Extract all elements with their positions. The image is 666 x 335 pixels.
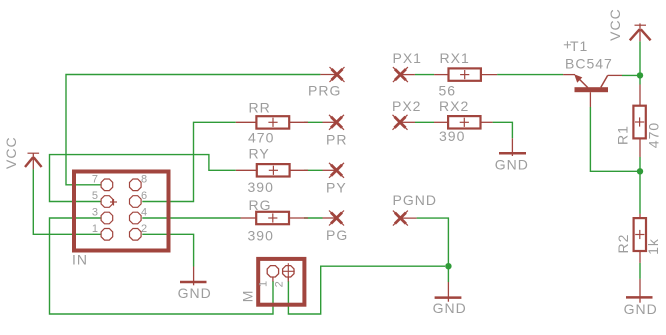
svg-text:PRG: PRG xyxy=(308,83,341,99)
svg-text:PGND: PGND xyxy=(393,192,437,208)
svg-text:390: 390 xyxy=(439,128,465,144)
pin PX2 xyxy=(393,115,416,130)
svg-text:390: 390 xyxy=(248,179,274,195)
svg-text:470: 470 xyxy=(248,130,274,146)
svg-text:8: 8 xyxy=(141,174,147,186)
ground GND symbol at PGND junction xyxy=(435,282,462,302)
wire net PRG: pad7 to PRG pin xyxy=(66,75,320,185)
wire net R1-R2 column xyxy=(639,75,641,279)
junction node at PGND/GND xyxy=(445,263,451,269)
svg-text:1: 1 xyxy=(258,281,270,287)
svg-text:RG: RG xyxy=(249,197,272,213)
junction node base/R1/R2 xyxy=(637,168,643,174)
pin PY xyxy=(323,163,345,178)
wire net PX1: PX1 pin to RX1 to transistor emitter xyxy=(415,74,563,76)
svg-text:2: 2 xyxy=(274,281,286,287)
wire net PX2: PX2 pin to RX2 to GND xyxy=(415,122,512,138)
pad 1 of M xyxy=(267,266,278,282)
svg-text:1k: 1k xyxy=(645,238,661,255)
pad 2 of M with origin cross xyxy=(282,263,294,281)
pad 2 of IN xyxy=(130,229,142,241)
power VCC right symbol xyxy=(630,23,651,41)
ground GND symbol below IN xyxy=(180,267,207,286)
svg-text:PX1: PX1 xyxy=(393,50,422,66)
svg-text:5: 5 xyxy=(92,190,98,202)
wire net GND left: pad2 to GND symbol xyxy=(142,234,193,266)
connector M body xyxy=(258,259,304,305)
svg-text:470: 470 xyxy=(646,122,662,148)
svg-text:4: 4 xyxy=(141,207,147,219)
wire net M1: pad3 down and along bottom to M pin 1 xyxy=(50,218,274,314)
svg-text:390: 390 xyxy=(248,228,274,244)
wire net VCC right: VCC symbol down to collector node xyxy=(622,41,640,75)
svg-text:GND: GND xyxy=(495,156,529,172)
svg-text:VCC: VCC xyxy=(3,136,19,169)
wire net RR: pad6 up to resistor RR row xyxy=(142,122,322,201)
transistor T1 origin cross xyxy=(564,41,571,48)
resistor RX1 xyxy=(434,68,497,80)
svg-text:BC547: BC547 xyxy=(565,56,613,72)
svg-text:PR: PR xyxy=(326,132,347,148)
svg-text:PX2: PX2 xyxy=(392,98,421,114)
pad 3 of IN xyxy=(101,212,113,224)
svg-text:2: 2 xyxy=(141,223,147,235)
resistor R1 xyxy=(633,85,645,158)
pin PRG xyxy=(320,67,344,82)
svg-text:PY: PY xyxy=(326,180,347,196)
resistor RR xyxy=(236,116,308,128)
svg-text:RY: RY xyxy=(249,146,270,162)
svg-text:1: 1 xyxy=(92,223,98,235)
svg-text:GND: GND xyxy=(624,301,658,317)
wire net VCC left: VCC symbol to pad1 xyxy=(33,169,101,234)
svg-text:6: 6 xyxy=(141,190,147,202)
power VCC left symbol xyxy=(25,153,42,169)
svg-text:GND: GND xyxy=(178,285,212,301)
origin cross at pin 5 xyxy=(110,199,117,206)
connector IN body xyxy=(74,172,169,251)
pad 6 of IN xyxy=(130,196,142,208)
pad 4 of IN xyxy=(130,212,142,224)
svg-text:R1: R1 xyxy=(615,125,631,145)
resistor RY xyxy=(236,164,308,176)
pad 5 of IN xyxy=(101,196,113,208)
svg-text:R2: R2 xyxy=(615,234,631,254)
pin PR xyxy=(323,115,345,130)
wire net RY: pad5 via two corners to resistor RY xyxy=(50,155,323,202)
svg-text:56: 56 xyxy=(439,83,457,99)
svg-text:RX1: RX1 xyxy=(440,50,470,66)
wire net RG: pad4 to resistor RG xyxy=(142,217,322,219)
svg-text:GND: GND xyxy=(433,300,467,316)
svg-text:IN: IN xyxy=(72,251,88,267)
svg-text:RR: RR xyxy=(249,100,271,116)
resistor R2 xyxy=(634,214,646,263)
ground GND symbol below RX2 xyxy=(499,138,526,156)
junction node collector/VCC/R1 xyxy=(637,72,643,78)
svg-text:RX2: RX2 xyxy=(439,98,469,114)
svg-text:VCC: VCC xyxy=(607,8,623,41)
svg-text:3: 3 xyxy=(92,207,98,219)
wire net base: transistor base down to R1/R2 node xyxy=(590,107,640,171)
pin PX1 xyxy=(393,67,415,82)
ground GND symbol below R2 xyxy=(626,279,653,303)
transistor T1 BC547 xyxy=(563,74,622,107)
svg-text:7: 7 xyxy=(92,174,98,186)
pin PG xyxy=(323,211,345,226)
pad 1 of IN xyxy=(101,229,113,241)
svg-text:M: M xyxy=(239,290,255,303)
svg-text:PG: PG xyxy=(326,227,348,243)
pad 8 of IN xyxy=(130,179,142,191)
pin PGND xyxy=(393,211,417,226)
pad 7 of IN xyxy=(101,179,113,191)
svg-text:T1: T1 xyxy=(570,38,588,54)
wire net PGND: M pin 2 up to PGND junction xyxy=(288,218,448,314)
resistor RX2 xyxy=(434,116,493,128)
resistor RG xyxy=(241,212,309,224)
